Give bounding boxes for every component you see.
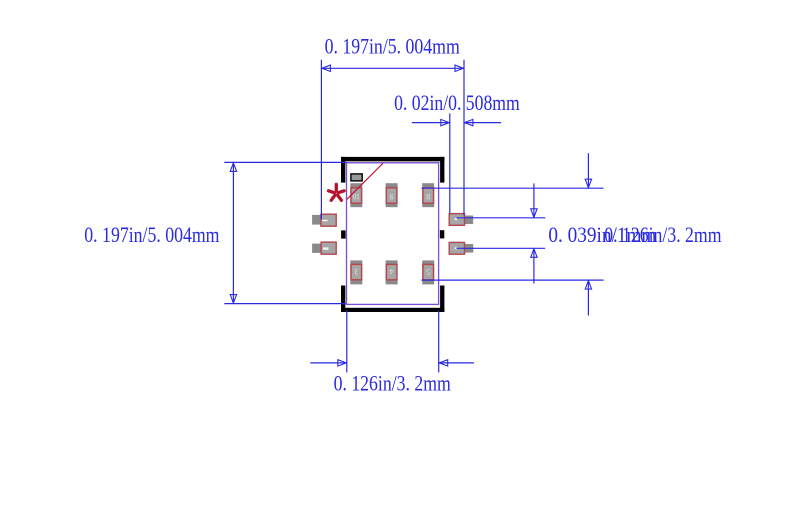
dimension D2 extension line [449, 113, 451, 213]
dimension D2 right arrow line [464, 122, 501, 124]
body outline gray line [342, 161, 444, 163]
pad 9 [386, 183, 398, 207]
dimension D3 extension line top [224, 161, 346, 163]
pin 1 marker rectangle [351, 174, 362, 181]
dimension D4 pad7 center line [457, 217, 546, 219]
silkscreen right tick [440, 230, 444, 238]
dimension D2 left arrow line [412, 122, 450, 124]
pin 1 asterisk [329, 184, 345, 200]
pad 8 [422, 183, 434, 207]
dimension D4 pad6 center line [457, 247, 546, 249]
dimension D6 extension line right [438, 311, 440, 373]
pad 7 [449, 214, 473, 226]
assembly pin1 diagonal red line [347, 163, 383, 199]
dimension D5 lower arrowhead up [585, 281, 591, 290]
dimension D1 arrow left [322, 65, 331, 71]
dimension D5 lower arrow line [587, 280, 589, 315]
dimension D5 upper arrowhead down [585, 179, 591, 188]
dimension D6 left arrow line [310, 362, 347, 364]
silkscreen top-left stub [341, 157, 345, 183]
pad 5 [422, 260, 434, 284]
dimension D3 extension line bottom [224, 303, 346, 305]
courtyard purple rectangle [347, 163, 439, 305]
svg-text:4: 4 [390, 267, 394, 276]
dimension D6 extension line left [346, 311, 348, 373]
silkscreen bottom-right stub [440, 286, 444, 313]
svg-text:5: 5 [426, 267, 430, 276]
pad 2 [312, 242, 336, 254]
svg-text:0. 197in/5. 004mm: 0. 197in/5. 004mm [325, 34, 460, 59]
dimension D5 upper arrow line [587, 153, 589, 188]
svg-text:9: 9 [390, 192, 394, 201]
dimension D4 upper arrow line [533, 183, 535, 217]
dimension D6 right arrow line [439, 362, 474, 364]
dimension D6 right arrowhead left [439, 360, 448, 366]
dimension D2 left arrowhead [441, 119, 450, 125]
dimension D3 line vertical [232, 162, 234, 303]
svg-text:3: 3 [354, 267, 358, 276]
pad 10 [350, 183, 362, 207]
silkscreen bottom bar [341, 308, 444, 312]
svg-text:0. 197in/5. 004mm: 0. 197in/5. 004mm [84, 222, 219, 247]
pad 6 [449, 242, 473, 254]
dimension D1 extension line right [463, 60, 465, 216]
dimension D4 upper arrowhead down [531, 209, 537, 218]
silkscreen top-right stub [440, 157, 444, 183]
svg-text:0. 126in/3. 2mm: 0. 126in/3. 2mm [334, 370, 451, 395]
svg-text:10: 10 [353, 192, 360, 201]
dimension D1 extension line left [320, 60, 322, 220]
svg-text:0. 126in/3. 2mm: 0. 126in/3. 2mm [604, 222, 721, 247]
silkscreen top bar [341, 157, 444, 161]
svg-text:0. 02in/0. 508mm: 0. 02in/0. 508mm [394, 90, 520, 115]
dimension D5 long line top [421, 187, 603, 189]
dimension D3 arrow down [230, 295, 236, 304]
dimension D1 arrow right [455, 65, 464, 71]
silkscreen bottom-left stub [341, 286, 345, 313]
dimension D5 long line bottom [421, 279, 603, 281]
dimension D1 line [321, 67, 464, 69]
dimension D4 lower arrowhead up [531, 249, 537, 257]
dimension D2 right arrowhead [464, 119, 473, 125]
silkscreen left tick [341, 230, 346, 238]
dimension D6 left arrowhead right [338, 360, 347, 366]
dimension D3 arrow up [230, 163, 236, 172]
dimension D4 lower arrow line [533, 249, 535, 284]
pad 4 [386, 260, 398, 284]
pad 3 [350, 260, 362, 284]
svg-text:8: 8 [426, 192, 430, 201]
pad 1 [312, 214, 336, 226]
